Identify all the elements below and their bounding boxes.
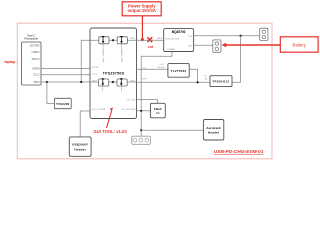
svg-text:GATE_VBUS2: GATE_VBUS2 — [120, 50, 123, 62]
connector J6 Aardvark header — [203, 120, 223, 141]
svg-text:cut: cut — [148, 45, 154, 49]
svg-text:Header: Header — [74, 147, 86, 151]
svg-text:USB2ANY: USB2ANY — [72, 143, 88, 147]
node PP5V mid junction — [112, 81, 114, 83]
TVS diode D1 TVS2200 — [54, 98, 71, 108]
svg-text:LDO_3V3: LDO_3V3 — [127, 99, 135, 101]
node PPHV mid junction — [112, 39, 114, 41]
svg-text:500mA: 500mA — [157, 66, 164, 69]
wire CC1,2 — [41, 74, 90, 76]
wire PPHV inside U1 — [90, 39, 137, 41]
svg-text:output:15V/3A: output:15V/3A — [128, 8, 156, 13]
svg-text:CC1,2: CC1,2 — [92, 73, 97, 75]
wire I2Cm to flash — [137, 110, 151, 112]
node I2Cm junction — [140, 110, 142, 112]
svg-text:TVS2200: TVS2200 — [56, 102, 70, 106]
wire VBUS riser to PPHV — [81, 40, 136, 82]
svg-text:I2C: I2C — [156, 112, 160, 115]
node VBUS junction riser — [80, 81, 82, 83]
svg-text:PP5V: PP5V — [142, 78, 148, 80]
svg-text:PPHV: PPHV — [130, 38, 136, 40]
svg-text:laptop→: laptop→ — [5, 60, 19, 64]
wire PP5V inside U1 — [90, 81, 137, 83]
wire SYS to connector J3 — [194, 35, 260, 37]
node power injection dot — [141, 38, 144, 41]
svg-text:DP/DM: DP/DM — [92, 67, 99, 69]
wire gate stub Q2 — [121, 44, 123, 52]
power supply annotation box — [122, 2, 161, 16]
gui tool annotation — [94, 108, 128, 134]
node header bus junction — [140, 129, 142, 131]
svg-text:Header: Header — [208, 131, 220, 135]
svg-text:GATE_VBUS1: GATE_VBUS1 — [102, 50, 105, 62]
PD controller U1 TPS25750D — [90, 28, 137, 119]
svg-text:GUI TOOL: v1.03: GUI TOOL: v1.03 — [94, 129, 128, 134]
svg-text:I2Cs_SCL/SDA: I2Cs_SCL/SDA — [92, 108, 106, 111]
wire PPHV to charger — [137, 39, 164, 41]
wire I2Cs to USB2ANY — [80, 111, 90, 137]
transistor Q1 PPHV FET A — [99, 36, 109, 44]
svg-text:3.3V,: 3.3V, — [159, 64, 164, 66]
wire bus to aardvark header — [141, 129, 203, 131]
svg-text:USB-PD-CHG-EVM-01: USB-PD-CHG-EVM-01 — [214, 149, 264, 155]
regulator U3 TLV75533 — [168, 64, 189, 78]
transistor Q4 PP5V FET B — [117, 78, 127, 86]
wire TVS branch — [47, 82, 55, 103]
svg-text:TPS564131: TPS564131 — [213, 80, 230, 84]
node PP5V junction — [197, 81, 199, 83]
svg-text:3A: 3A — [205, 78, 208, 81]
transistor Q3 PP5V FET A — [99, 78, 109, 86]
regulator U4 TPS564131 — [210, 76, 232, 87]
svg-text:Battery: Battery — [293, 42, 307, 47]
node SYS junction — [240, 35, 242, 37]
svg-text:5V,: 5V, — [204, 76, 207, 78]
svg-text:BQ25792: BQ25792 — [172, 30, 186, 34]
memory U5 Flash IC — [150, 103, 165, 118]
wire BAT to connector J2 — [194, 44, 213, 46]
connector J3 system terminal — [260, 28, 268, 40]
svg-text:I2Cm_SCL/SDA: I2Cm_SCL/SDA — [121, 108, 135, 111]
svg-text:SBU1,2: SBU1,2 — [32, 59, 41, 61]
svg-text:VBUS: VBUS — [92, 80, 98, 82]
svg-text:Aardvark: Aardvark — [206, 126, 221, 130]
cut mark X — [147, 37, 154, 49]
connector J5 3 pin power header — [132, 136, 151, 144]
svg-text:SSTX/RX: SSTX/RX — [30, 46, 40, 48]
svg-text:Receptacle: Receptacle — [24, 37, 38, 41]
svg-text:Flash: Flash — [154, 107, 162, 111]
svg-text:DP/DM: DP/DM — [32, 68, 39, 70]
svg-text:TLV75533: TLV75533 — [171, 69, 187, 73]
wire VBUS lower run — [41, 81, 137, 83]
wire gate stub Q4 — [120, 86, 122, 91]
board outline frame — [17, 23, 272, 159]
connector J1 Type C Receptacle — [22, 34, 42, 85]
svg-text:USB2.0: USB2.0 — [32, 52, 41, 54]
wire SYS/MID down — [141, 52, 172, 137]
wire power supply feed — [141, 16, 143, 40]
wire LDO_3V3 output to TLV input — [137, 68, 168, 70]
svg-text:TPS25750D: TPS25750D — [103, 72, 125, 76]
wire gate stub Q3 — [102, 86, 104, 91]
wire DP/DM — [41, 68, 90, 70]
wire PP5V to buck output — [137, 81, 211, 83]
wire SYS to buck input — [232, 36, 241, 83]
connector J4 USB2ANY header — [69, 137, 91, 156]
wire TLV output drop — [189, 69, 197, 82]
svg-text:VBUS: VBUS — [33, 82, 40, 84]
svg-text:SYS/MID: SYS/MID — [167, 49, 175, 51]
svg-text:CC1,2: CC1,2 — [33, 75, 40, 77]
wire LDO_3V3 to flash — [137, 99, 158, 103]
transistor Q2 PPHV FET B — [117, 36, 127, 44]
wire gate stub Q1 — [102, 44, 104, 52]
battery annotation arrow — [222, 43, 281, 48]
svg-text:VBUS: VBUS — [157, 38, 163, 40]
battery annotation box — [280, 37, 318, 52]
svg-text:Vin/Rx/USB-C&M: Vin/Rx/USB-C&M — [165, 39, 180, 41]
node VBUS junction TVS branch — [46, 81, 48, 83]
charger U2 BQ25792 — [164, 29, 194, 52]
connector J2 battery terminal — [213, 40, 221, 52]
svg-text:PP5V: PP5V — [130, 80, 136, 82]
